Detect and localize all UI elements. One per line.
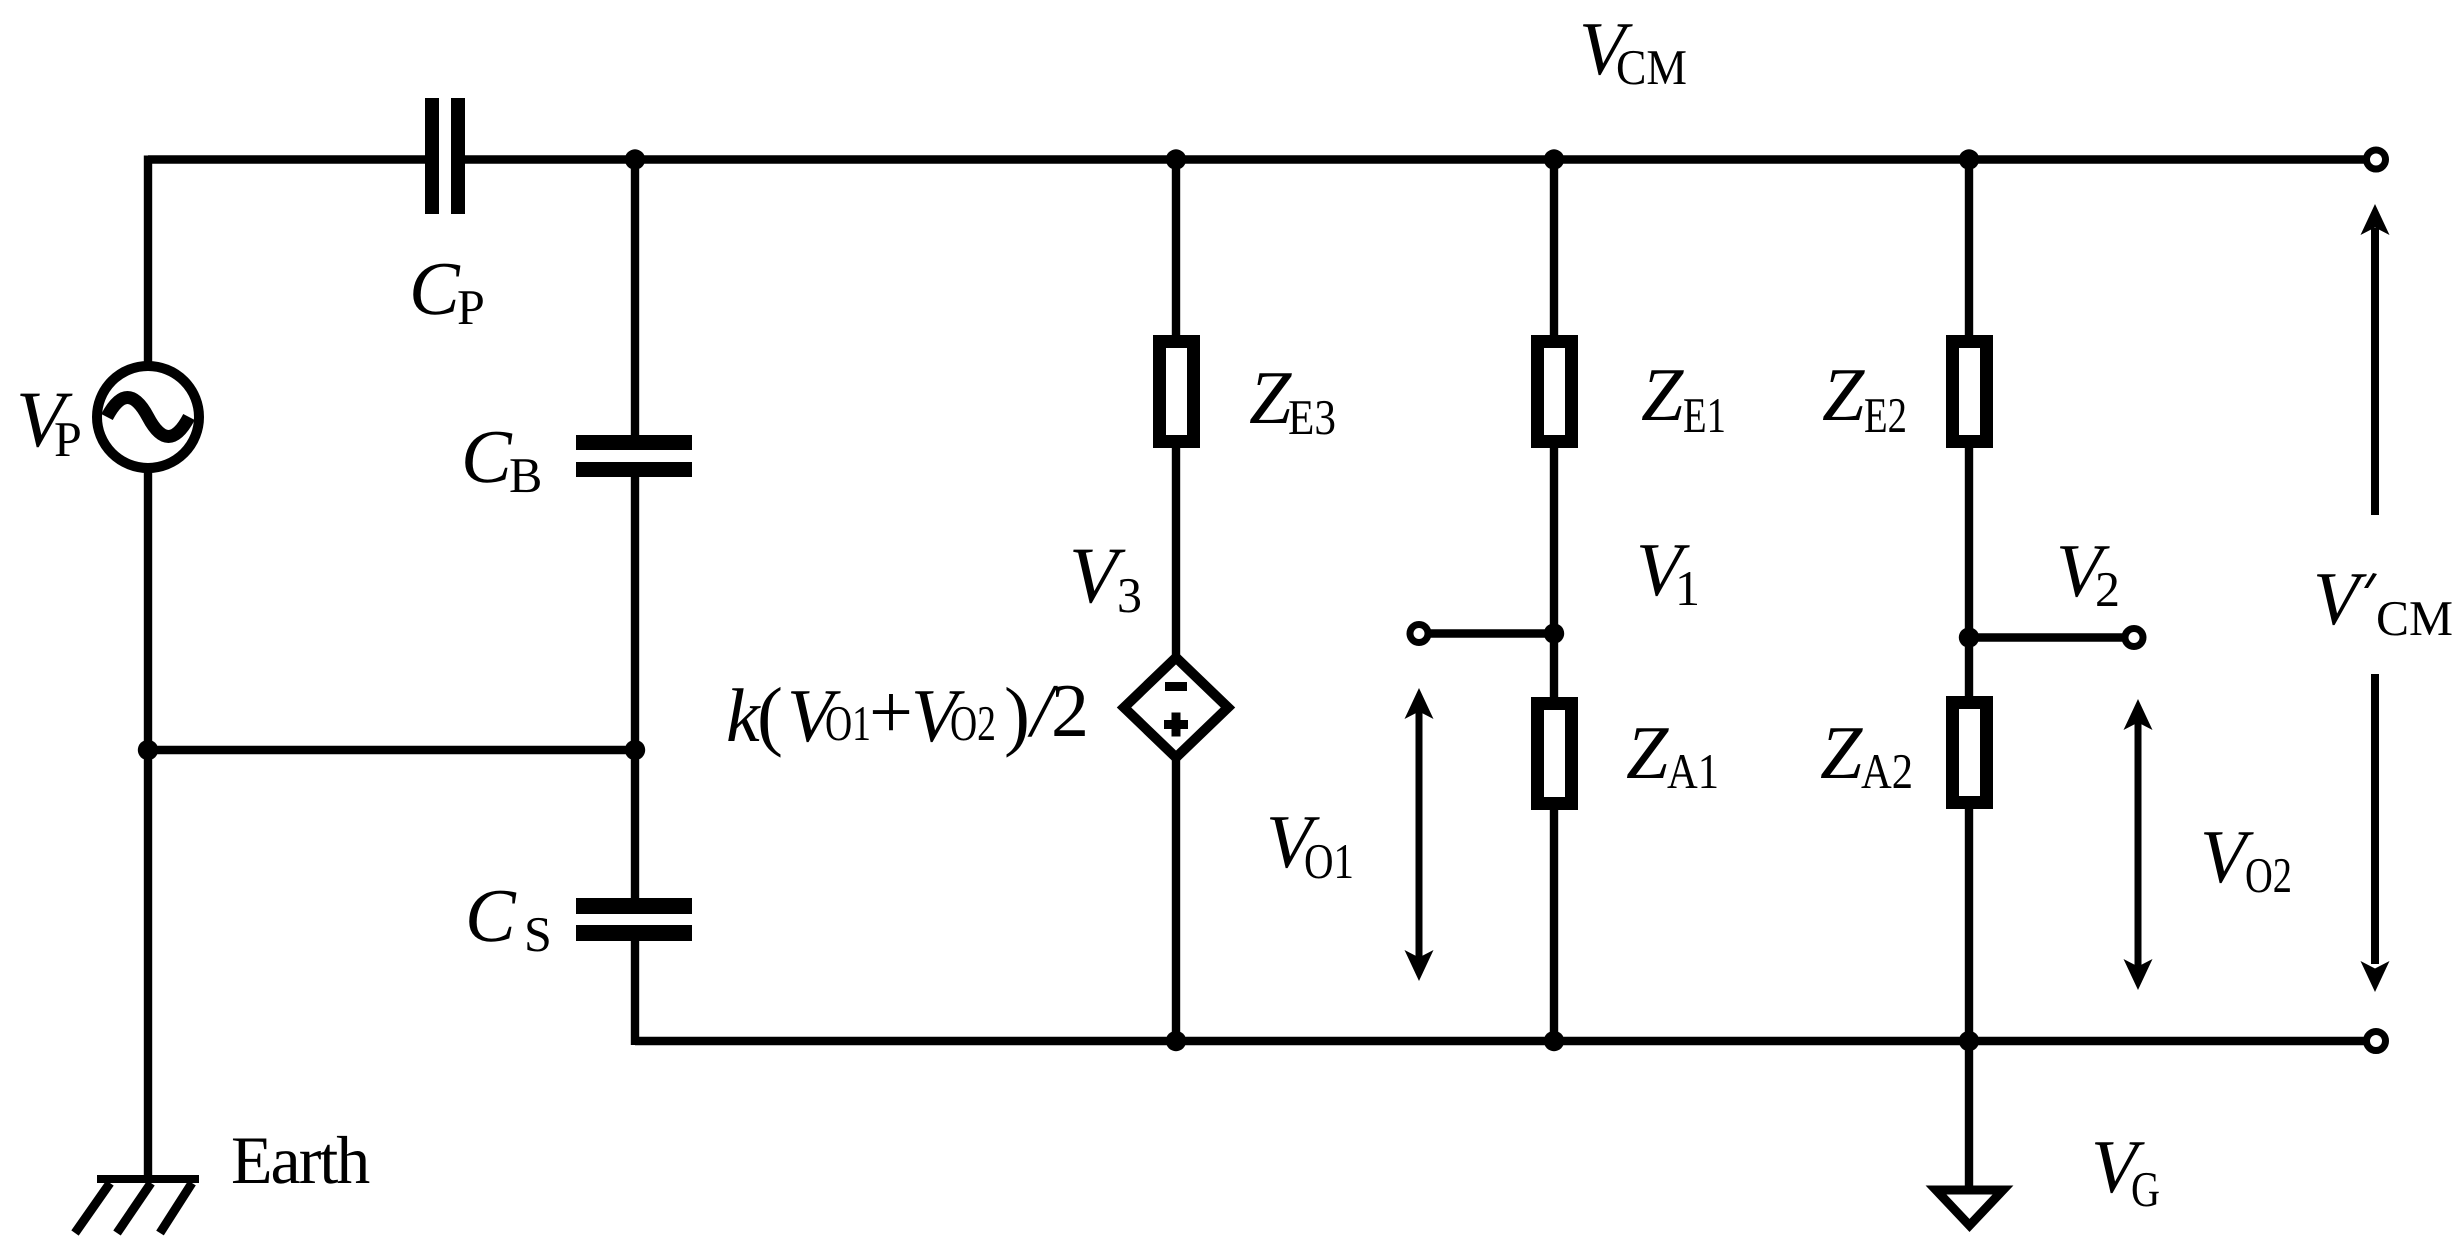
arrow VO2 [2124, 699, 2153, 990]
svg-text:k: k [726, 674, 761, 758]
svg-text:A2: A2 [1861, 743, 1913, 799]
label CB [461, 415, 542, 503]
arrow VO1 [1405, 688, 1434, 981]
AC source VP [97, 366, 199, 468]
label VG [2091, 1125, 2160, 1217]
label VCM' right [2313, 557, 2453, 646]
svg-text:(: ( [757, 671, 783, 758]
label Earth [231, 1122, 370, 1198]
svg-text:2: 2 [2095, 561, 2120, 617]
svg-text:O2: O2 [950, 695, 996, 751]
terminal V1 [1410, 625, 1428, 643]
junction bottom wire / branch ZA1 [1544, 1031, 1564, 1051]
wire V1 tap [1423, 629, 1554, 637]
svg-text:Z: Z [1626, 711, 1669, 795]
svg-text:1: 1 [1675, 560, 1700, 616]
svg-text:E3: E3 [1288, 389, 1336, 445]
junction top wire / CB column [625, 149, 645, 169]
svg-text:3: 3 [1117, 567, 1142, 623]
arrow VCM' upper [2361, 204, 2390, 515]
svg-text:Z: Z [1822, 353, 1865, 437]
junction top wire / branch ZE2 [1959, 149, 1979, 169]
wire branch3 lower [1965, 803, 1973, 1041]
capacitor CB [576, 435, 692, 477]
polarity minus mark of V3 [1165, 682, 1187, 691]
arrow VCM' lower [2361, 674, 2390, 992]
label VCM [1579, 7, 1687, 95]
wire branch3 upper [1965, 160, 1973, 342]
terminal bottom right [2367, 1032, 2386, 1051]
label VP [16, 376, 82, 467]
junction bottom wire / branch ZA2 [1959, 1031, 1979, 1051]
wire middle horizontal [148, 746, 635, 754]
wire column x=635 middle [631, 477, 639, 898]
wire branch1 lower [1172, 753, 1180, 1041]
junction middle wire / VP column [138, 740, 158, 760]
label V3 [1069, 532, 1142, 623]
svg-text:O1: O1 [825, 695, 871, 751]
capacitor CS [576, 898, 692, 941]
svg-text:P: P [54, 411, 82, 467]
wire bottom horizontal [635, 1037, 2364, 1045]
wire branch1 middle [1172, 442, 1180, 656]
junction node V2 tap [1959, 627, 1979, 647]
svg-text:Z: Z [1249, 356, 1292, 440]
svg-text:S: S [524, 906, 552, 962]
svg-text:A1: A1 [1667, 743, 1719, 799]
polarity plus mark of V3 [1164, 713, 1188, 737]
svg-text:C: C [465, 874, 517, 958]
svg-text:O1: O1 [1304, 833, 1354, 889]
junction top wire / branch ZE1 [1544, 149, 1564, 169]
svg-text:Earth: Earth [231, 1122, 370, 1198]
wire branch1 upper [1172, 160, 1180, 342]
label VO1 [1266, 800, 1354, 889]
svg-text:O2: O2 [2245, 847, 2292, 903]
impedance ZE1 [1538, 342, 1572, 442]
terminal VCM' top right [2367, 150, 2386, 169]
junction node V1 tap [1544, 623, 1564, 643]
svg-text:2: 2 [1051, 669, 1089, 753]
wire branch2 middle [1550, 442, 1558, 703]
svg-text:E2: E2 [1864, 387, 1907, 443]
wire branch2 upper [1550, 160, 1558, 342]
junction top wire / branch ZE3 [1166, 149, 1186, 169]
wire branch3 middle [1965, 442, 1973, 702]
svg-text:P: P [457, 279, 485, 335]
wire to VG ground [1965, 1041, 1973, 1189]
wire column x=635 lower [631, 941, 639, 1045]
label ZA1 [1626, 711, 1719, 799]
capacitor CP [425, 98, 465, 214]
svg-text:E1: E1 [1683, 387, 1726, 443]
impedance ZA2 [1953, 703, 1987, 803]
junction bottom wire / branch ZE3 [1166, 1031, 1186, 1051]
label CP [409, 247, 485, 335]
wire column x=635 upper [631, 160, 639, 436]
svg-text:G: G [2131, 1161, 2160, 1217]
label ZE1 [1641, 353, 1726, 443]
svg-text:C: C [461, 415, 513, 499]
label ZA2 [1820, 711, 1913, 799]
svg-text:Z: Z [1820, 711, 1863, 795]
wire V2 tap [1969, 633, 2126, 641]
impedance ZA1 [1538, 704, 1572, 804]
label V1 [1636, 528, 1700, 616]
svg-text:B: B [509, 447, 542, 503]
svg-text:): ) [1004, 671, 1030, 758]
wire branch2 lower [1550, 804, 1558, 1041]
svg-text:Z: Z [1641, 353, 1684, 437]
label V2 [2056, 529, 2120, 617]
dependent source V3 diamond [1124, 658, 1228, 758]
svg-text:C: C [409, 247, 461, 331]
impedance ZE2 [1953, 342, 1987, 442]
label ZE3 [1249, 356, 1336, 445]
svg-text:+: + [869, 668, 913, 755]
impedance ZE3 [1160, 342, 1194, 442]
ground VG triangle [1936, 1190, 2003, 1226]
wire left vertical upper [144, 156, 152, 367]
svg-text:CM: CM [2376, 590, 2453, 646]
label ZE2 [1822, 353, 1907, 443]
svg-text:CM: CM [1616, 39, 1687, 95]
wire top horizontal right of CP [465, 155, 2364, 163]
earth ground [75, 1179, 199, 1233]
label k(VO1+VO2)/2 [726, 668, 1089, 758]
label CS [465, 874, 552, 962]
label VO2 [2200, 815, 2292, 903]
wire left vertical lower [144, 468, 152, 1179]
wire top horizontal left of CP [148, 155, 425, 163]
junction middle wire / CB-CS column [625, 740, 645, 760]
terminal V2 [2125, 629, 2143, 647]
svg-text:V: V [2313, 557, 2367, 641]
